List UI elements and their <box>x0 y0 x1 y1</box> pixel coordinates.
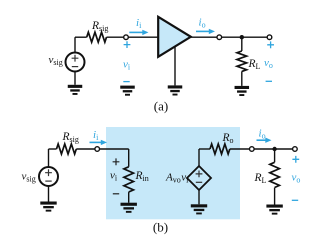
svg-text:vo: vo <box>264 57 273 70</box>
svg-text:io: io <box>199 17 206 30</box>
svg-text:Rsig: Rsig <box>62 131 79 144</box>
svg-text:vsig: vsig <box>49 54 63 67</box>
svg-text:io: io <box>259 128 266 141</box>
svg-text:vi: vi <box>123 59 131 72</box>
svg-text:RL: RL <box>254 172 267 185</box>
svg-text:(b): (b) <box>153 220 168 235</box>
svg-text:Rsig: Rsig <box>91 20 108 33</box>
svg-text:vo: vo <box>292 172 301 185</box>
svg-text:(a): (a) <box>154 99 168 114</box>
svg-text:ii: ii <box>136 17 142 30</box>
svg-text:ii: ii <box>93 129 99 142</box>
svg-text:vsig: vsig <box>22 171 36 184</box>
svg-text:RL: RL <box>248 58 261 71</box>
